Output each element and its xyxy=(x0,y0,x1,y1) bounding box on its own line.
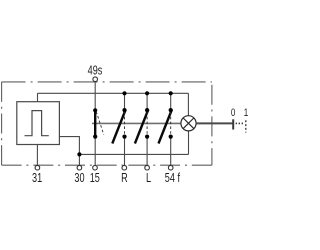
dashed alternative position of S1 lever xyxy=(96,112,104,135)
junction dot: bottom bus / node 30 xyxy=(77,152,81,156)
contact stud: S4 top xyxy=(169,108,173,112)
svg-text:31: 31 xyxy=(32,172,42,186)
mechanical coupling bar (gray) through switch levers xyxy=(92,122,181,124)
wire: contact 4 bottom to terminal 54f xyxy=(170,137,172,166)
junction dot: top bus / contact 2 stub xyxy=(122,91,126,95)
terminal R xyxy=(122,165,127,170)
contact stud: S3 top xyxy=(145,108,149,112)
contact stud: S2 top xyxy=(122,108,126,112)
svg-text:1: 1 xyxy=(244,107,248,120)
contact stud: S4 bottom xyxy=(169,135,173,139)
svg-text:R: R xyxy=(121,172,128,186)
wire: flasher box right to node 30 xyxy=(59,137,79,166)
contact stud: S1 top xyxy=(93,108,97,112)
junction dot: top bus / contact 4 stub xyxy=(169,91,173,95)
wire: lamp bottom lead xyxy=(188,131,190,155)
contact stud: S1 bottom xyxy=(93,135,97,139)
dotted travel between position 0 and 1 xyxy=(236,122,244,124)
switch contact S4 (54f) open lever xyxy=(159,110,172,144)
contact stud: S2 bottom xyxy=(122,135,126,139)
terminal 49s xyxy=(93,77,98,82)
junction dot: top bus / contact 3 stub xyxy=(145,91,149,95)
switch contact S1 (49s-15) closed lever xyxy=(94,110,96,138)
wire: top bus stub to contact 3 xyxy=(146,93,148,110)
indicator lamp E1 (circle with cross) xyxy=(181,116,196,131)
enclosure border top edge (dash-dot) xyxy=(2,81,212,83)
wire: top bus stub to contact 4 xyxy=(170,93,172,110)
enclosure border bottom edge (dash-dot) xyxy=(2,164,212,166)
svg-text:49s: 49s xyxy=(88,64,103,78)
wire: flasher box top to top bus xyxy=(37,93,39,101)
wire: top bus (y=93.3) from box to lamp xyxy=(38,92,189,94)
svg-text:30: 30 xyxy=(74,172,84,186)
dashed alternative position of S3 lever xyxy=(146,112,148,135)
wire: top bus stub to contact 2 xyxy=(124,93,126,110)
wire: lamp top lead xyxy=(187,93,189,115)
terminal 31 xyxy=(35,165,40,170)
enclosure border right edge (dash-dot) xyxy=(211,85,213,166)
svg-text:L: L xyxy=(146,172,151,186)
actuator axis from lamp to position indicator xyxy=(196,122,233,124)
position 1 dotted tick xyxy=(245,120,247,132)
dashed alternative position of S4 lever xyxy=(170,112,172,135)
enclosure border left edge (dash-dot) xyxy=(1,82,3,165)
contact stud: S3 bottom xyxy=(145,135,149,139)
terminal L xyxy=(145,165,150,170)
wire: contact 2 bottom to terminal R xyxy=(124,137,126,166)
wire: flasher box bottom to terminal 31 xyxy=(36,145,38,166)
svg-text:15: 15 xyxy=(90,172,100,186)
svg-text:0: 0 xyxy=(231,107,235,120)
wire: contact 3 bottom to terminal L xyxy=(146,137,148,166)
pulse symbol inside flasher box xyxy=(25,111,49,136)
terminal 15 xyxy=(93,165,98,170)
terminal 30 xyxy=(77,165,82,170)
wire: bottom bus from node 30 to lamp bottom xyxy=(79,153,188,155)
wire: terminal 49s down to contact 1 top xyxy=(94,82,96,111)
terminal 54f xyxy=(168,165,173,170)
flasher relay box U1 xyxy=(17,102,60,145)
wire: contact 1 bottom to terminal 15 xyxy=(94,137,96,166)
dashed alternative position of S2 lever xyxy=(124,112,126,135)
switch contact S3 (L) open lever xyxy=(135,110,148,144)
position 0 detent tick xyxy=(232,119,234,129)
switch contact S2 (R) open lever xyxy=(112,110,125,144)
svg-text:54 f: 54 f xyxy=(165,172,181,186)
